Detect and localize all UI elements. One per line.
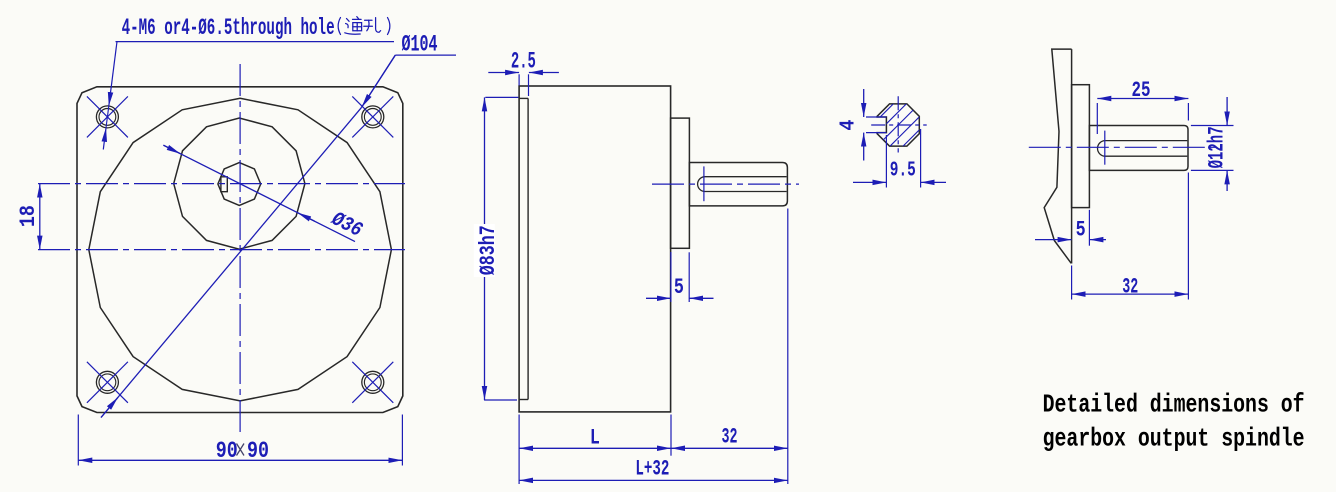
broken mounting plate (right detail) xyxy=(1044,49,1071,263)
svg-text:Ø12h7: Ø12h7 xyxy=(1204,126,1229,168)
svg-text:2.5: 2.5 xyxy=(511,48,536,74)
keyway slot on shaft xyxy=(221,177,227,192)
dimension 32 (shaft extension) xyxy=(671,447,788,449)
dimension 9.5 xyxy=(885,135,887,188)
output spindle (right detail) xyxy=(1089,126,1188,171)
leader and label: 4-M6 or 4-dia6.5 through hole xyxy=(116,41,395,43)
section centerlines xyxy=(897,96,899,152)
svg-text:5: 5 xyxy=(1076,218,1086,243)
output shaft side view xyxy=(689,163,787,206)
dimension 18 (hub offset) xyxy=(39,184,41,250)
gearbox body circle dia83 drawn as 16-gon xyxy=(89,98,392,401)
keyway slot on shaft (side view) xyxy=(705,176,787,178)
svg-text:90: 90 xyxy=(216,438,238,465)
svg-text:L+32: L+32 xyxy=(635,456,669,482)
dimension L+32 xyxy=(519,479,788,481)
dimension 4 (keyway width) xyxy=(866,116,886,118)
svg-text:gearbox output spindle: gearbox output spindle xyxy=(1043,423,1305,453)
dimension 5 (boss thickness, side view) xyxy=(670,252,672,302)
svg-text:4: 4 xyxy=(837,120,861,131)
spindle centerline xyxy=(1029,146,1222,148)
centerline horizontal through plate centre xyxy=(38,249,405,251)
mounting hole 1 with cross mark xyxy=(96,106,118,128)
hub circle dia36 drawn as 12-gon xyxy=(174,118,305,249)
dia104 bolt circle dimension line xyxy=(101,108,361,418)
centerline horizontal through hub xyxy=(38,183,405,185)
dia104 leader to label xyxy=(361,55,395,108)
svg-text:32: 32 xyxy=(722,423,738,449)
dimension 90x90 xyxy=(77,415,79,466)
slot centre mark xyxy=(703,166,705,201)
svg-text:L: L xyxy=(590,426,600,451)
dimension 2.5 (spigot thickness) xyxy=(518,74,520,85)
output shaft dia12 drawn as octagon xyxy=(218,163,261,206)
front view: square mounting plate 90x90 with chamfered corners xyxy=(77,87,403,413)
dimension dia83h7 xyxy=(485,96,518,98)
dimension 32 (right detail) xyxy=(1071,266,1073,300)
svg-text:5: 5 xyxy=(674,275,684,300)
dia83 spigot edge line xyxy=(527,98,529,399)
dimension dia12h7 xyxy=(1191,125,1234,127)
svg-text:90: 90 xyxy=(247,438,269,465)
svg-text:4-M6 or4-Ø6.5through hole: 4-M6 or4-Ø6.5through hole xyxy=(122,15,335,41)
dia36 dimension line with label xyxy=(163,145,355,241)
svg-text:32: 32 xyxy=(1122,273,1138,299)
boss dia36x5 (right detail) xyxy=(1072,85,1090,208)
svg-text:Ø83h7: Ø83h7 xyxy=(475,225,501,275)
hatching xyxy=(827,80,969,170)
dimension 25 (flat length) xyxy=(1096,103,1098,134)
CJK annotation (tong kong) hand drawn xyxy=(338,17,390,35)
svg-text:Ø104: Ø104 xyxy=(402,32,438,58)
mounting hole 3 with cross mark xyxy=(96,371,118,393)
dia36 output boss xyxy=(671,118,690,248)
dimension L xyxy=(518,415,520,485)
shaft centerline side view xyxy=(652,183,799,185)
keyway flat lines xyxy=(1105,140,1187,142)
side view gearbox body rectangle xyxy=(519,86,671,412)
svg-text:9.5: 9.5 xyxy=(890,158,916,182)
mounting hole 4 with cross mark xyxy=(362,371,384,393)
slot centre mark (right detail) xyxy=(1104,131,1106,165)
dimension 5 (boss, right detail) xyxy=(1088,210,1090,246)
centerline vertical front view xyxy=(239,64,241,433)
svg-text:Detailed dimensions of: Detailed dimensions of xyxy=(1043,390,1305,420)
svg-text:25: 25 xyxy=(1132,77,1151,103)
svg-text:18: 18 xyxy=(15,205,41,227)
mounting hole 2 with cross mark xyxy=(362,106,384,128)
